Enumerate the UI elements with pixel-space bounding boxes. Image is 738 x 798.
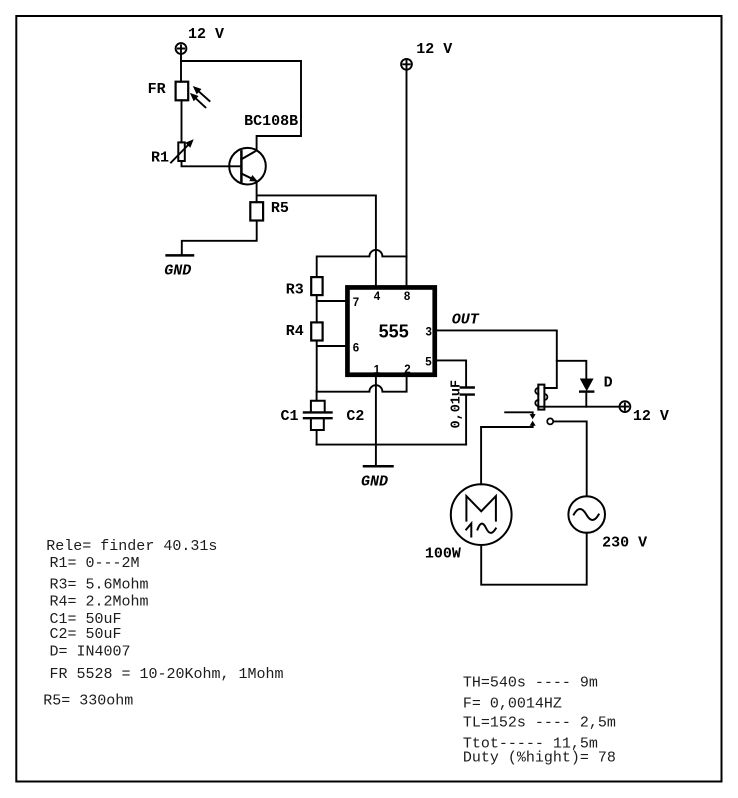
svg-text:Duty (%hight)= 78: Duty (%hight)= 78 xyxy=(463,750,616,767)
wire diode branch xyxy=(557,361,587,379)
svg-text:TH=540s ---- 9m: TH=540s ---- 9m xyxy=(463,675,598,692)
wire OUT pin3 to relay xyxy=(437,330,557,388)
wire R1 to base xyxy=(182,161,230,166)
FR light arrow 1 xyxy=(193,86,210,101)
svg-text:BC108B: BC108B xyxy=(244,113,298,130)
svg-text:C1: C1 xyxy=(281,408,299,425)
relay contact terminal circle xyxy=(547,418,553,424)
notes list right xyxy=(463,675,616,767)
svg-text:R4: R4 xyxy=(286,323,304,340)
relay switch contact arms xyxy=(481,412,536,427)
svg-text:R3= 5.6Mohm: R3= 5.6Mohm xyxy=(50,576,149,593)
wire FR to R1 xyxy=(181,100,183,142)
svg-text:FR: FR xyxy=(148,81,166,98)
transistor Q1 BC108B xyxy=(229,148,266,185)
svg-text:C2= 50uF: C2= 50uF xyxy=(50,626,122,643)
svg-text:F= 0,0014HZ: F= 0,0014HZ xyxy=(463,695,562,712)
wire supply1 to FR top xyxy=(180,54,182,82)
svg-text:0,01uF: 0,01uF xyxy=(450,380,465,429)
power supply +12V (left) xyxy=(176,43,187,54)
svg-text:555: 555 xyxy=(379,322,409,342)
capacitor C1 xyxy=(304,392,332,445)
IC U1 555 xyxy=(347,287,434,374)
resistor R5 xyxy=(250,202,263,220)
svg-text:4: 4 xyxy=(374,291,381,303)
wire ground rail xyxy=(317,444,467,446)
svg-text:GND: GND xyxy=(164,263,191,280)
svg-text:R5= 330ohm: R5= 330ohm xyxy=(43,692,133,709)
photoresistor FR xyxy=(176,82,189,101)
wire R3 to R4 with pin7 branch xyxy=(317,295,346,322)
svg-text:5: 5 xyxy=(425,357,432,369)
ground (left) xyxy=(167,254,193,257)
FR light arrow 2 xyxy=(190,93,206,107)
capacitor 0,01uF xyxy=(461,388,474,395)
svg-text:R4= 2.2Mohm: R4= 2.2Mohm xyxy=(50,594,149,611)
svg-text:FR 5528 = 10-20Kohm, 1Mohm: FR 5528 = 10-20Kohm, 1Mohm xyxy=(50,666,284,683)
svg-text:3: 3 xyxy=(425,327,431,339)
wire R5 to ground xyxy=(182,221,257,256)
svg-text:D= IN4007: D= IN4007 xyxy=(50,644,131,661)
svg-text:7: 7 xyxy=(353,297,359,309)
power supply +12V (right) xyxy=(620,401,631,412)
relay coil K1 xyxy=(535,385,547,410)
svg-text:Rele= finder 40.31s: Rele= finder 40.31s xyxy=(46,538,217,555)
wire top rail to transistor collector xyxy=(181,61,301,150)
svg-text:12 V: 12 V xyxy=(416,41,452,58)
svg-text:R1= 0---2M: R1= 0---2M xyxy=(50,555,140,572)
wire bottom hop rail pins 1-2 xyxy=(317,376,407,392)
wire R3 top rail with hop to pin8 line xyxy=(317,250,407,277)
svg-text:6: 6 xyxy=(353,343,359,355)
svg-text:12 V: 12 V xyxy=(188,26,224,43)
wire switch to lamp xyxy=(480,427,482,484)
AC source 230V xyxy=(568,496,605,533)
diode D xyxy=(580,379,594,407)
svg-text:GND: GND xyxy=(361,474,388,491)
wire cap to ground rail xyxy=(465,395,467,445)
variable resistor R1 xyxy=(178,142,185,161)
svg-text:D: D xyxy=(604,374,613,391)
wire lamp bottom loop xyxy=(481,533,587,585)
wire pin1 to ground stem xyxy=(375,376,377,466)
ground (middle) xyxy=(364,465,393,468)
resistor R4 xyxy=(311,322,322,340)
svg-text:OUT: OUT xyxy=(452,312,480,329)
svg-text:TL=152s ---- 2,5m: TL=152s ---- 2,5m xyxy=(463,715,616,732)
R1 adjust arrow xyxy=(171,139,194,162)
svg-text:2: 2 xyxy=(404,364,410,376)
wire emitter to R5 and reset branch xyxy=(257,182,376,287)
svg-text:1: 1 xyxy=(374,365,381,377)
resistor R3 xyxy=(311,277,322,295)
svg-text:R1: R1 xyxy=(151,150,169,167)
wire relay bottom rail to supply3 xyxy=(538,406,620,408)
wire supply2 to pin 8 xyxy=(406,70,408,288)
notes list left xyxy=(43,538,283,710)
motor/lamp M 100W xyxy=(451,484,512,545)
svg-text:12 V: 12 V xyxy=(633,408,669,425)
wire contact to 230V source xyxy=(553,421,586,496)
svg-text:R3: R3 xyxy=(286,282,304,299)
wire pin5 to cap xyxy=(437,360,467,387)
wire R4 down with pin6 branch xyxy=(317,341,346,392)
svg-text:100W: 100W xyxy=(425,546,461,563)
svg-text:230 V: 230 V xyxy=(602,535,647,552)
svg-text:C2: C2 xyxy=(346,408,364,425)
svg-text:R5: R5 xyxy=(271,200,289,217)
svg-text:8: 8 xyxy=(404,291,411,303)
power supply +12V (middle) xyxy=(401,59,412,70)
